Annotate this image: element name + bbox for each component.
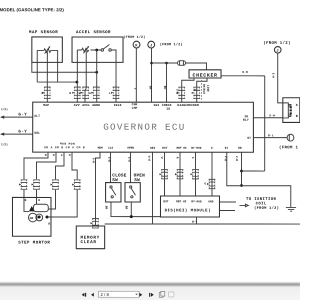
svg-text:BR: BR	[105, 206, 108, 210]
svg-text:STEP MORTOR: STEP MORTOR	[18, 241, 50, 245]
svg-text:MON MON: MON MON	[60, 143, 75, 146]
svg-text:BR: BR	[149, 86, 152, 90]
svg-text:G-R: G-R	[92, 158, 95, 163]
svg-text:BW: BW	[163, 86, 166, 90]
svg-text:IG: IG	[166, 107, 170, 111]
svg-text:CHECKER: CHECKER	[193, 73, 218, 79]
svg-text:V-B: V-B	[235, 156, 238, 161]
svg-text:B: B	[42, 92, 44, 95]
svg-text:SHIELD: SHIELD	[202, 84, 205, 95]
svg-text:ST: ST	[247, 136, 251, 140]
svg-text:G-Y: G-Y	[18, 113, 27, 117]
svg-text:DIAG: DIAG	[177, 103, 185, 107]
svg-text:E-W: E-W	[272, 73, 275, 78]
svg-text:REF HI: REF HI	[177, 147, 188, 150]
svg-text:K: K	[211, 147, 213, 150]
svg-text:E1: E1	[225, 147, 229, 150]
svg-text:CLEAR: CLEAR	[80, 240, 96, 245]
svg-text:V-W: V-W	[175, 89, 178, 94]
svg-text:LINE: LINE	[206, 85, 209, 92]
svg-text:MAP: MAP	[43, 103, 49, 107]
svg-text:G: G	[191, 157, 194, 159]
svg-text:GOVERNOR ECU: GOVERNOR ECU	[103, 122, 185, 133]
svg-text:B: B	[69, 92, 71, 95]
svg-text:EST: EST	[162, 147, 167, 150]
svg-text:OPEN: OPEN	[127, 147, 134, 150]
svg-text:DIS(HEI) MODULE): DIS(HEI) MODULE)	[165, 208, 211, 213]
svg-text:SM A SM B CM A CM B: SM A SM B CM A CM B	[44, 146, 85, 149]
svg-text:G-W: G-W	[269, 114, 275, 117]
svg-text:RLY: RLY	[243, 118, 249, 122]
svg-text:G: G	[89, 92, 91, 95]
svg-text:B: B	[193, 89, 196, 91]
svg-text:B: B	[296, 114, 298, 118]
svg-text:B-L: B-L	[268, 134, 274, 137]
svg-text:CHECKER: CHECKER	[185, 103, 199, 107]
svg-text:G-B: G-B	[107, 157, 110, 162]
svg-text:J: J	[276, 50, 278, 54]
svg-text:1/2): 1/2)	[1, 142, 8, 146]
svg-text:MAP SENSOR: MAP SENSOR	[29, 31, 58, 35]
svg-text:REF HI: REF HI	[176, 200, 187, 203]
svg-text:B: B	[44, 154, 47, 156]
svg-text:(FROM 1/2): (FROM 1/2)	[254, 206, 279, 211]
svg-text:CLS: CLS	[108, 147, 113, 150]
svg-text:W: W	[52, 154, 55, 156]
svg-text:IG2: IG2	[153, 103, 159, 107]
svg-text:(FROM 1: (FROM 1	[279, 145, 299, 150]
svg-text:ALT: ALT	[34, 114, 40, 118]
svg-text:G-K: G-K	[127, 157, 130, 162]
svg-text:AVV: AVV	[74, 103, 80, 107]
svg-text:EST: EST	[163, 200, 168, 203]
svg-text:1/2): 1/2)	[1, 107, 8, 111]
svg-text:B: B	[38, 199, 40, 202]
svg-text:G: G	[60, 154, 63, 156]
svg-text:R: R	[176, 157, 179, 159]
svg-text:Y: Y	[133, 88, 136, 90]
svg-text:G-Y: G-Y	[18, 130, 27, 134]
svg-text:W-R: W-R	[147, 156, 150, 161]
svg-text:J: J	[150, 44, 152, 48]
svg-text:(FROM 1/2): (FROM 1/2)	[123, 35, 145, 39]
svg-text:G: G	[204, 182, 206, 185]
svg-text:ACCEL SENSOR: ACCEL SENSOR	[76, 31, 111, 35]
svg-text:EB: EB	[238, 147, 242, 150]
svg-text:W: W	[160, 157, 163, 159]
svg-text:SM: SM	[30, 217, 34, 220]
svg-text:W: W	[79, 92, 81, 95]
svg-text:2 / 8: 2 / 8	[101, 292, 110, 297]
svg-text:AVCL: AVCL	[82, 103, 90, 107]
svg-text:SOL: SOL	[34, 131, 40, 135]
svg-text:(FROM 1/2): (FROM 1/2)	[160, 42, 183, 47]
svg-text:GND: GND	[208, 200, 213, 203]
svg-text:B: B	[48, 222, 50, 225]
svg-text:L: L	[109, 92, 111, 95]
svg-text:DE2: DE2	[150, 147, 155, 150]
svg-text:LMP: LMP	[132, 106, 138, 110]
svg-text:BY-MOD: BY-MOD	[191, 200, 202, 203]
svg-text:B: B	[25, 199, 27, 202]
svg-text:AGND: AGND	[92, 103, 100, 107]
svg-text:MODEL (GASOLINE TYPE: 2/2): MODEL (GASOLINE TYPE: 2/2)	[0, 7, 64, 12]
svg-text:(FROM 1/2): (FROM 1/2)	[263, 41, 291, 46]
svg-text:R: R	[68, 154, 71, 156]
svg-text:TO IGNITION: TO IGNITION	[246, 198, 277, 202]
svg-text:S: S	[296, 103, 298, 107]
svg-text:BR: BR	[125, 206, 128, 210]
svg-text:IDLE: IDLE	[114, 103, 122, 107]
svg-text:BY-MOD: BY-MOD	[191, 147, 202, 150]
svg-text:MEM: MEM	[98, 147, 103, 150]
svg-text:COIL: COIL	[256, 202, 267, 206]
svg-text:W-B: W-B	[242, 71, 248, 74]
